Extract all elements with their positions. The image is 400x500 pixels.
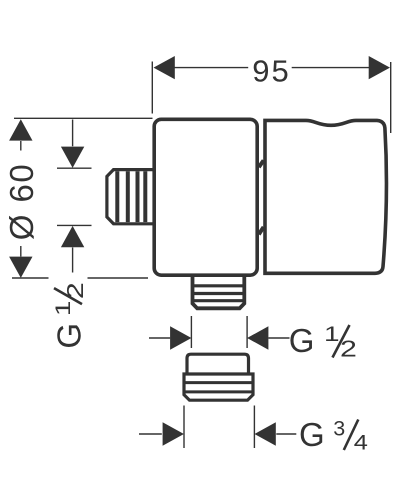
- svg-text:1: 1: [324, 322, 340, 346]
- svg-text:Ø 60: Ø 60: [3, 163, 40, 241]
- svg-text:G: G: [289, 322, 315, 359]
- svg-text:2: 2: [340, 336, 357, 362]
- svg-text:1: 1: [51, 301, 75, 317]
- svg-text:4: 4: [354, 430, 368, 454]
- svg-text:G: G: [51, 323, 88, 349]
- svg-text:3: 3: [333, 417, 345, 441]
- svg-text:G: G: [299, 416, 325, 453]
- svg-text:95: 95: [252, 53, 290, 88]
- svg-text:2: 2: [63, 282, 89, 299]
